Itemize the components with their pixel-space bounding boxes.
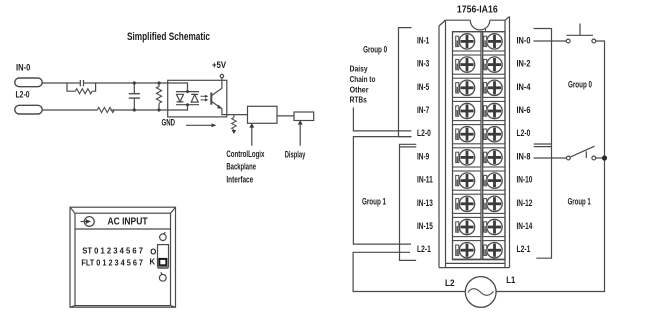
svg-text:Interface: Interface	[226, 174, 253, 185]
svg-text:Chain to: Chain to	[350, 75, 376, 84]
svg-text:IN-15: IN-15	[417, 221, 433, 231]
svg-text:FLT 0 1 2 3 4 5 6 7: FLT 0 1 2 3 4 5 6 7	[81, 257, 143, 267]
svg-text:L2: L2	[445, 278, 455, 289]
svg-text:IN-11: IN-11	[417, 175, 433, 185]
svg-text:Backplane: Backplane	[226, 162, 256, 173]
svg-text:IN-14: IN-14	[517, 221, 533, 231]
svg-text:IN-0: IN-0	[517, 35, 531, 45]
svg-text:IN-5: IN-5	[417, 82, 429, 92]
svg-text:AC INPUT: AC INPUT	[108, 217, 148, 228]
svg-text:1756-IA16: 1756-IA16	[457, 5, 498, 16]
svg-text:IN-0: IN-0	[16, 62, 30, 72]
svg-text:IN-10: IN-10	[517, 175, 533, 185]
svg-text:GND: GND	[162, 118, 176, 128]
svg-text:ControlLogix: ControlLogix	[226, 149, 264, 160]
svg-text:L2-0: L2-0	[417, 128, 431, 138]
svg-text:IN-1: IN-1	[417, 35, 429, 45]
svg-text:ST 0 1 2 3 4 5 6 7: ST 0 1 2 3 4 5 6 7	[82, 245, 143, 255]
svg-text:Group 1: Group 1	[362, 197, 386, 207]
svg-text:+5V: +5V	[212, 60, 226, 70]
svg-text:O: O	[150, 247, 156, 256]
svg-text:L2-0: L2-0	[16, 90, 30, 100]
svg-text:IN-4: IN-4	[517, 82, 531, 92]
svg-text:L2-0: L2-0	[517, 128, 531, 138]
svg-text:IN-6: IN-6	[517, 105, 531, 115]
svg-text:Group 1: Group 1	[568, 197, 591, 207]
svg-text:L1: L1	[506, 275, 516, 286]
svg-text:K: K	[150, 257, 156, 266]
svg-text:L2-1: L2-1	[517, 244, 531, 254]
svg-text:IN-9: IN-9	[417, 151, 429, 161]
svg-text:L2-1: L2-1	[417, 244, 431, 254]
svg-text:IN-13: IN-13	[417, 198, 433, 208]
svg-text:IN-8: IN-8	[517, 151, 531, 161]
svg-text:Daisy: Daisy	[350, 65, 368, 74]
svg-text:RTBs: RTBs	[350, 96, 368, 105]
svg-text:IN-7: IN-7	[417, 105, 429, 115]
svg-text:Display: Display	[285, 150, 306, 161]
svg-text:Group 0: Group 0	[363, 44, 387, 54]
svg-text:Other: Other	[350, 85, 370, 94]
svg-text:IN-12: IN-12	[517, 198, 533, 208]
svg-text:Simplified Schematic: Simplified Schematic	[127, 31, 210, 43]
svg-text:Group 0: Group 0	[568, 79, 592, 89]
svg-text:IN-3: IN-3	[417, 59, 429, 69]
svg-text:IN-2: IN-2	[517, 59, 531, 69]
